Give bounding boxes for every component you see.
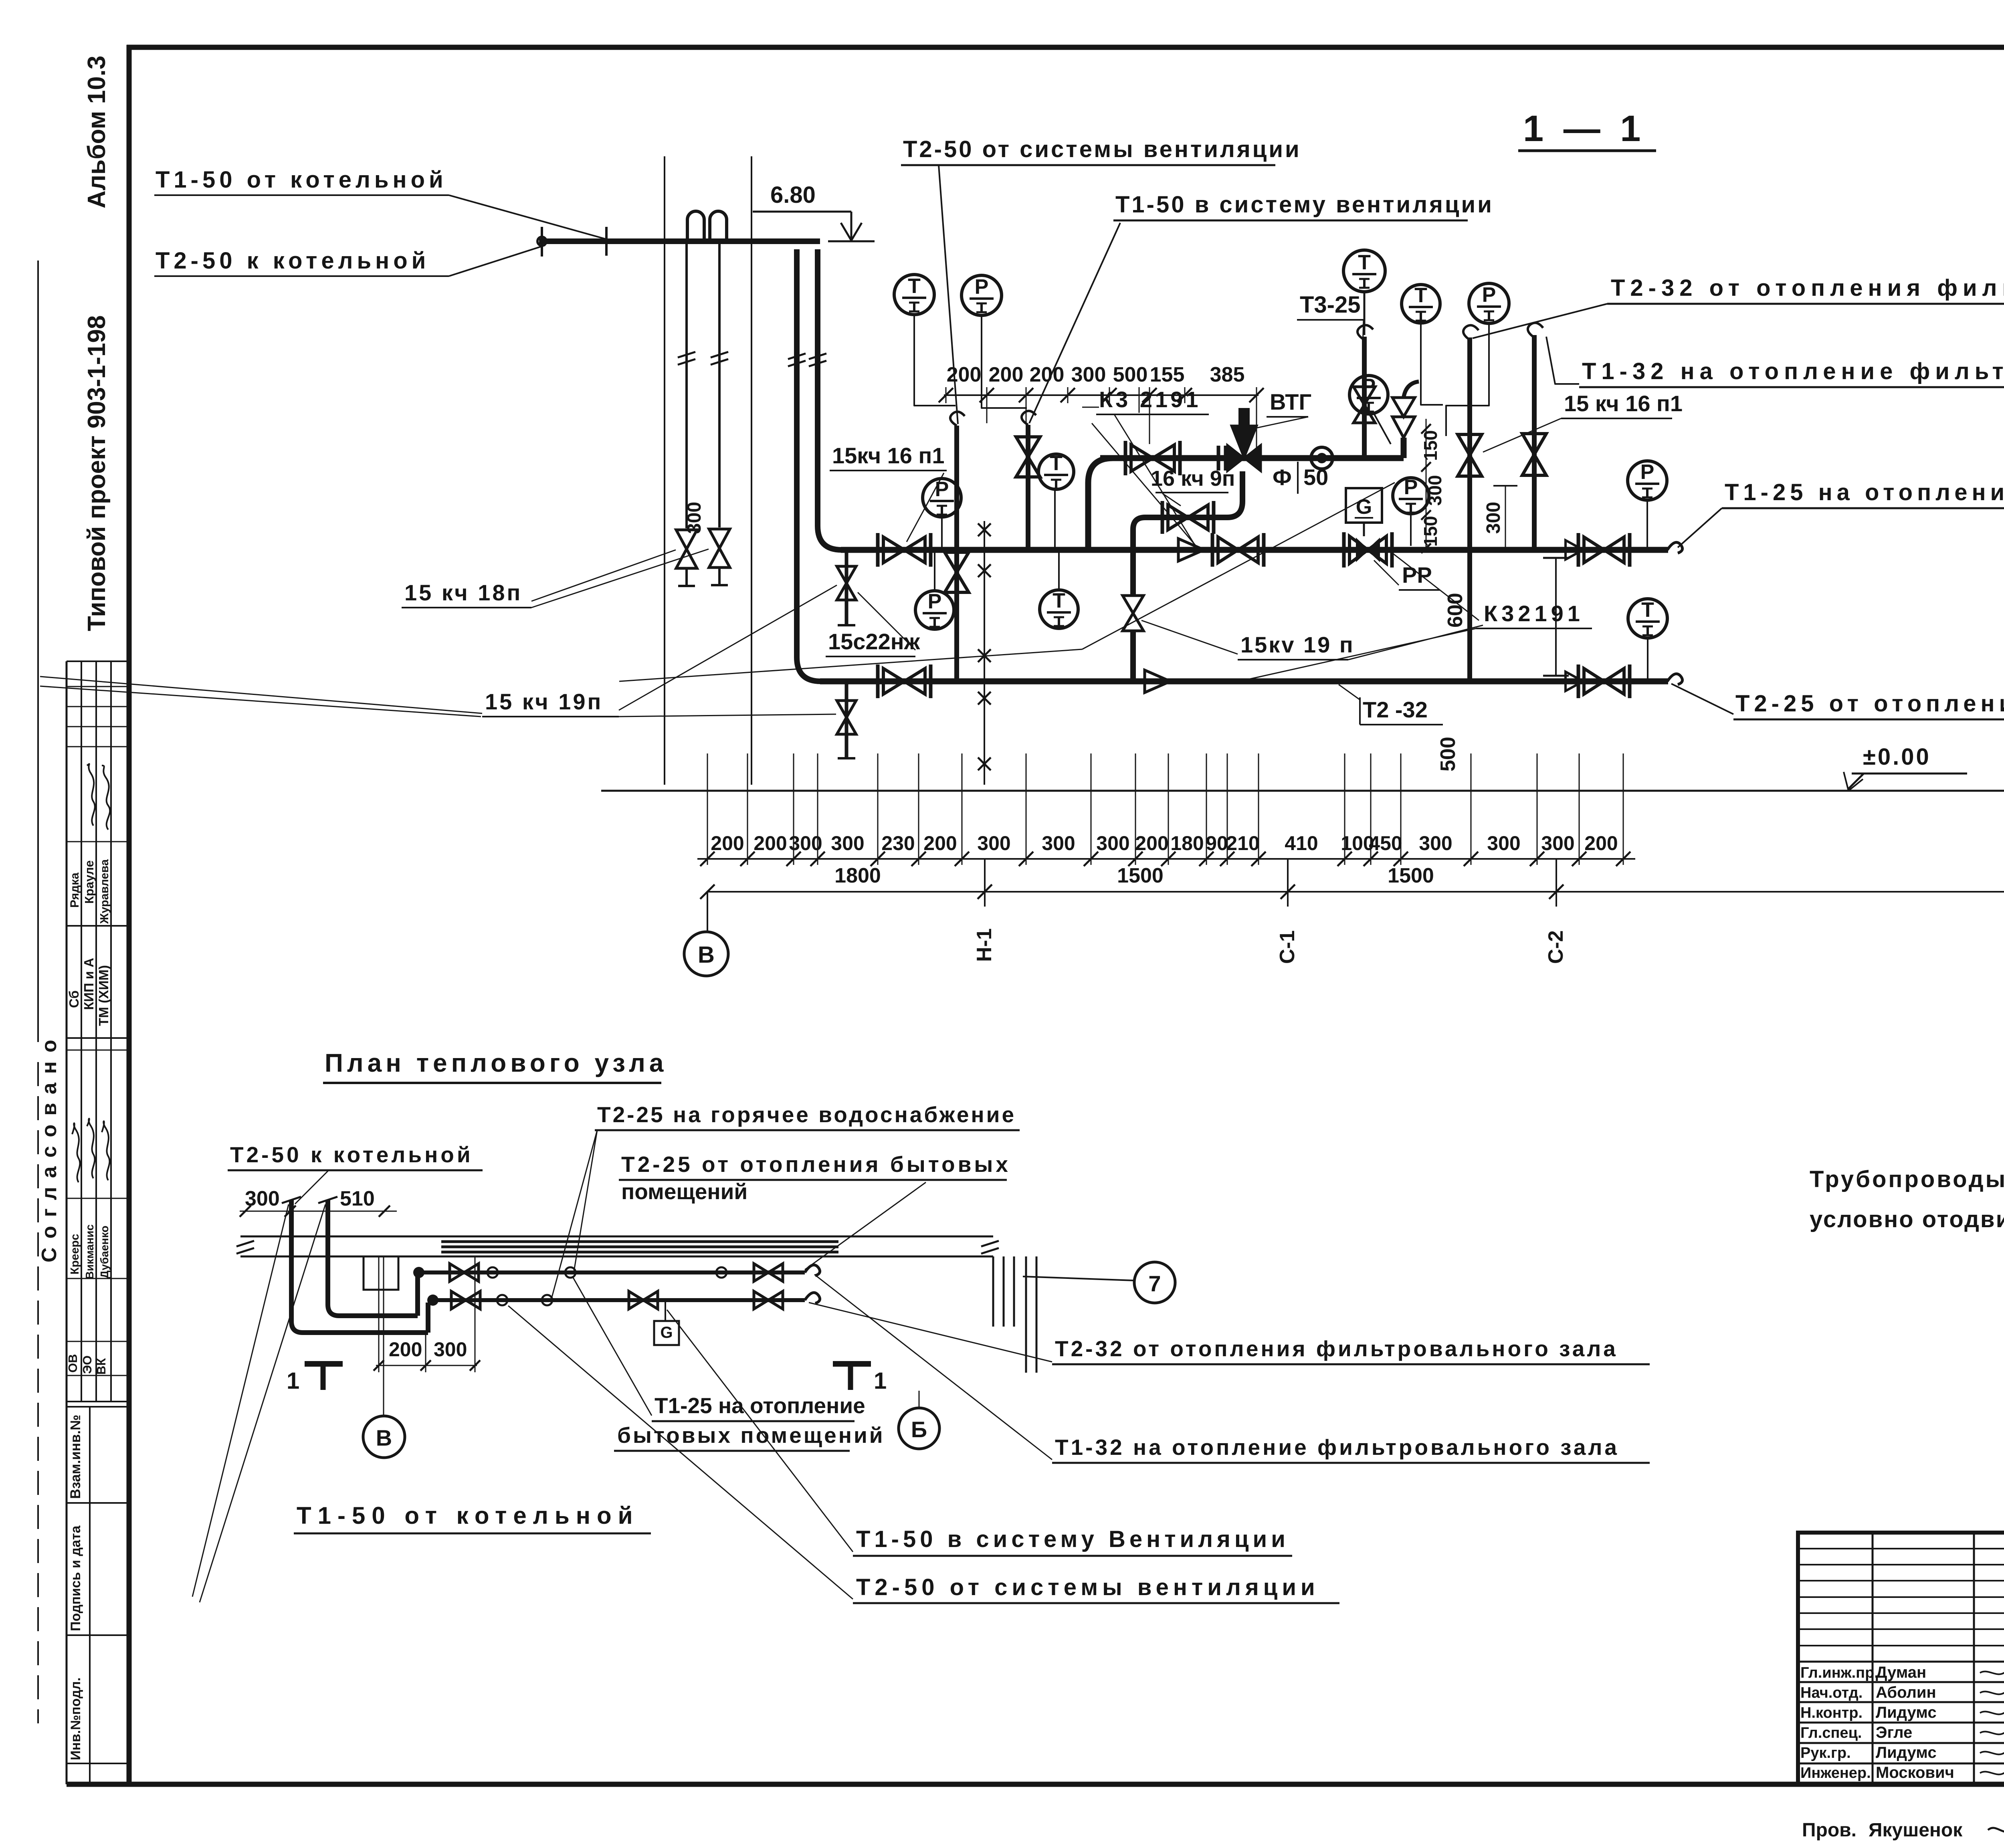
break mark riser2 xyxy=(809,353,826,359)
valve 16кч9п xyxy=(1168,505,1208,530)
building axis line 2 (vertical) xyxy=(751,156,752,785)
riser Т2-32 от отопления xyxy=(1467,337,1472,681)
flanged valve upper main x3089 xyxy=(1218,537,1258,563)
expansion loop 1 xyxy=(687,211,704,240)
valve on lower main x2256 xyxy=(883,669,925,694)
G meter box plan xyxy=(654,1321,679,1345)
svg-text:Эгле: Эгле xyxy=(1876,1724,1912,1741)
strainer ring Ф50 xyxy=(1311,447,1333,469)
gauge Р upper-left xyxy=(962,275,1002,315)
left table line under names C xyxy=(67,1278,129,1279)
svg-text:Якушенок: Якушенок xyxy=(1869,1820,1963,1841)
riser from boiler to lower main xyxy=(797,249,821,681)
elevation arrow xyxy=(850,212,853,239)
valve right upper run xyxy=(754,1264,783,1281)
gauge Т between mains upper xyxy=(1038,454,1074,489)
gauge Т on branch Т2-25 xyxy=(1628,599,1667,638)
valve on riser 2565 xyxy=(1016,437,1040,477)
leader xyxy=(814,1274,1052,1460)
svg-text:Н.контр.: Н.контр. xyxy=(1800,1705,1863,1721)
riser Т3-25 xyxy=(1362,337,1367,458)
leader 16кч9п xyxy=(1162,493,1181,506)
gauge Т above Т3-25 riser xyxy=(1343,250,1385,292)
gauge Р before PP xyxy=(1393,478,1429,514)
svg-text:Москович: Москович xyxy=(1876,1764,1954,1781)
svg-text:Инженер.: Инженер. xyxy=(1800,1765,1871,1781)
support tick on header xyxy=(605,227,608,256)
branch Т2-25 off lower main xyxy=(1566,672,1583,691)
valve on lower run xyxy=(451,1291,480,1309)
leader xyxy=(1678,508,1722,547)
leaders 15кч18п xyxy=(531,550,676,601)
gauge Р on branch Т1-25 xyxy=(1628,461,1667,500)
dimension line 2 xyxy=(707,891,2004,893)
G meter box xyxy=(1346,488,1382,523)
stem G to main xyxy=(1363,523,1365,536)
break mark riser1 xyxy=(788,353,806,359)
dim line stack right xyxy=(1426,419,1427,550)
leader РР xyxy=(1374,560,1399,585)
gauge Т between mains xyxy=(1040,590,1078,628)
drain stub lower xyxy=(845,684,848,758)
axis bubble В (plan) xyxy=(383,1257,384,1416)
vertical divider in label xyxy=(1139,387,1140,413)
svg-text:Рук.гр.: Рук.гр. xyxy=(1800,1745,1851,1761)
leader 15с22нж xyxy=(858,592,915,650)
drain valve lower xyxy=(837,701,856,734)
upper dim line xyxy=(944,394,1259,396)
floor line xyxy=(601,790,2004,792)
drop pipe 15кч18п left xyxy=(685,241,688,528)
dimension extension lines xyxy=(707,753,708,865)
axis label Н-1 xyxy=(984,859,986,907)
gauge Р below upper main xyxy=(915,591,954,629)
flange rings upper run xyxy=(487,1267,498,1278)
stem xyxy=(1054,489,1056,548)
regulator actuator stem xyxy=(1238,408,1250,428)
valve 15кч18п right (vertical) xyxy=(709,529,730,568)
axis bubble 7 (plan) xyxy=(1023,1276,1134,1280)
valve on riser Т1-32 xyxy=(1522,434,1546,475)
diagonal leader across cluster xyxy=(1092,423,1198,548)
elbow up from 16кч9п to regulator junction xyxy=(1227,471,1242,517)
pipe from boiler (Т1-50/Т2-50 header) xyxy=(539,238,820,244)
axis bubble Б (plan) xyxy=(919,1391,920,1408)
arrow to floor xyxy=(1848,774,1864,789)
svg-text:Пров.: Пров. xyxy=(1802,1820,1857,1841)
stem of gauge Т xyxy=(914,315,956,406)
left table line under names xyxy=(67,925,129,927)
flange rings lower run xyxy=(497,1295,507,1305)
riser Т2-50 от системы вентиляции xyxy=(954,426,959,681)
x marks xyxy=(978,523,991,536)
svg-text:Лидумс: Лидумс xyxy=(1876,1744,1937,1761)
stem of gauge Р xyxy=(982,316,1027,408)
sheet frame top border xyxy=(127,45,2004,50)
leader xyxy=(573,1278,652,1416)
gauge Р right pair xyxy=(1469,283,1509,323)
gauge Р above hot line corner xyxy=(1349,376,1388,414)
leader xyxy=(295,1170,329,1204)
svg-text:Аболин: Аболин xyxy=(1876,1684,1936,1701)
leader xyxy=(1473,304,1607,338)
building axis line В (vertical) xyxy=(664,156,665,785)
dimension line 1 xyxy=(697,858,1635,860)
wall break marks xyxy=(236,1241,254,1246)
valve on riser Т2-32 xyxy=(1458,434,1482,476)
axis label С-1 xyxy=(1287,859,1289,907)
gauge Р above upper main left xyxy=(923,479,961,517)
16кч9п bypass line xyxy=(1133,517,1145,596)
leaders xyxy=(1141,620,1238,654)
plan wall lower line xyxy=(240,1256,993,1258)
valve on upper run xyxy=(450,1264,479,1281)
upper main pipe (supply) xyxy=(841,547,1668,553)
hot water line Т3 horizontal xyxy=(1100,455,1404,461)
gauge Т right pair xyxy=(1402,285,1440,323)
three-way regulator body at 3100 xyxy=(1227,426,1261,471)
svg-text:Нач.отд.: Нач.отд. xyxy=(1800,1684,1863,1701)
leader to pipe T1-50 xyxy=(449,195,605,239)
leaders xyxy=(192,1204,289,1597)
axis bubble В xyxy=(707,892,708,932)
feeder end ticks xyxy=(282,1197,301,1203)
leader xyxy=(1339,685,1360,700)
leader to pipe T2-50 xyxy=(449,245,545,276)
column hatch below wall right xyxy=(992,1256,994,1327)
drain stub upper (15с22нж) xyxy=(845,552,848,625)
left table outer lines xyxy=(66,661,68,1784)
feeder pipe Т2-50 (plan L-shape) xyxy=(291,1200,428,1333)
leaders xyxy=(574,1130,597,1271)
drop from hot line to upper main xyxy=(1088,458,1113,550)
left table согласовано block lines xyxy=(67,1050,129,1051)
extension lines for plan dims xyxy=(378,1257,380,1372)
check valve upper main xyxy=(1178,539,1204,561)
riser Т1-50 в систему вентиляции xyxy=(1026,425,1030,550)
leader 15кч16п1 left xyxy=(907,473,944,542)
axis label С-2 xyxy=(1556,859,1557,907)
title block outer xyxy=(1798,1533,2004,1784)
leader xyxy=(1546,337,1579,384)
valve right lower run xyxy=(754,1291,783,1309)
sheet frame left border xyxy=(127,45,132,1784)
hot line right elbow up with corner valve xyxy=(1401,438,1407,458)
valve between mains x2827 (bypass lower part) xyxy=(1123,596,1143,631)
stem xyxy=(1446,323,1489,436)
leader xyxy=(1483,418,1561,452)
flange ring on header left end xyxy=(537,237,546,246)
section mark Т-1 right xyxy=(833,1361,871,1367)
sig table name rows xyxy=(1798,1661,2004,1663)
leader xyxy=(805,1182,926,1270)
wall dark band (slab) xyxy=(441,1240,838,1243)
stem xyxy=(1364,292,1366,335)
svg-text:Лидумс: Лидумс xyxy=(1876,1704,1937,1721)
stem xyxy=(1421,323,1443,405)
left margin thin line xyxy=(37,261,39,1042)
lower main pipe (return) xyxy=(820,679,1668,685)
valve on riser 2387 xyxy=(945,552,969,592)
sig table upper rows xyxy=(1798,1548,2004,1549)
valve mid lower run xyxy=(629,1291,658,1309)
valve 15кч18п left (vertical) xyxy=(676,530,697,568)
flange plates before regulator xyxy=(1217,446,1220,471)
stem xyxy=(1410,514,1412,546)
dim between mains x3882 xyxy=(1555,558,1557,676)
valve on upper main x2256 xyxy=(883,537,925,563)
drain valve upper xyxy=(837,566,856,600)
svg-text:Гл.спец.: Гл.спец. xyxy=(1800,1725,1862,1741)
section mark 1-Т left xyxy=(305,1361,343,1367)
break mark xyxy=(678,352,695,357)
leader xyxy=(1671,684,1733,714)
gauge Т upper-left xyxy=(894,275,934,315)
drop pipe 15кч18п right xyxy=(718,241,721,527)
check valve lower main xyxy=(1145,670,1170,693)
break mark xyxy=(711,352,728,357)
leader xyxy=(667,1310,853,1552)
plan wall upper line xyxy=(240,1236,993,1238)
long leader diagonals (КЗ2191 lower) xyxy=(1232,628,1476,683)
sig table columns xyxy=(1872,1533,1874,1784)
tick between Ф and 50 xyxy=(1297,462,1299,494)
valve К3-2191 on hot line xyxy=(1131,445,1174,471)
sheet frame bottom border xyxy=(67,1782,2004,1787)
svg-text:Гл.инж.пр.: Гл.инж.пр. xyxy=(1800,1664,1879,1681)
feeder pipe Т1-50 (plan L-shape) xyxy=(328,1200,418,1316)
plan lower run pipe xyxy=(433,1298,805,1302)
left table signatures block A (handwriting) xyxy=(87,764,95,826)
left table Взам.инв.№ row xyxy=(67,1406,129,1408)
riser from boiler to upper main xyxy=(818,249,842,550)
leader Т3-25 xyxy=(1363,320,1364,345)
left table signatures block C xyxy=(72,1123,80,1183)
leader xyxy=(508,1306,853,1599)
left table upper horizontals xyxy=(67,686,129,687)
leader to riser 2387 xyxy=(939,165,958,424)
extension stubs from upper dim line xyxy=(986,403,988,423)
leader К3 2191 xyxy=(1114,414,1194,544)
drain header vertical with x marks xyxy=(984,521,985,785)
PP regulator on upper main xyxy=(1349,536,1386,563)
niche below wall xyxy=(364,1256,398,1290)
stem xyxy=(1374,414,1391,444)
branch Т1-25 off upper main xyxy=(1566,540,1583,559)
svg-text:Думан: Думан xyxy=(1876,1664,1926,1681)
valve on riser Т3-25 xyxy=(1354,387,1375,423)
leader to riser 2565 xyxy=(1029,223,1120,423)
riser Т1-32 на отопление xyxy=(1532,335,1537,550)
plan upper run pipe xyxy=(419,1270,805,1274)
leaders 15кч19п xyxy=(619,585,837,710)
leader ВТГ xyxy=(1248,417,1308,430)
left table column dividers upper part xyxy=(81,661,82,1402)
leader xyxy=(809,1303,1052,1362)
expansion loop 2 xyxy=(710,211,727,240)
